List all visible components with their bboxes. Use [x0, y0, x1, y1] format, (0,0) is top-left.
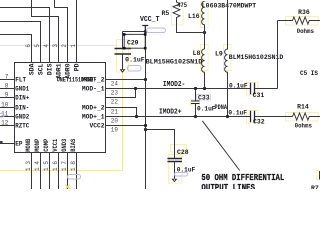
- wire pin18 BIAS: [76, 153, 78, 190]
- svg-text:9: 9: [5, 91, 9, 98]
- wire VCC_T to C29: [123, 31, 146, 33]
- highlight box C33: [191, 100, 200, 106]
- wire pin21 MOD+_2 down to bus: [106, 108, 137, 117]
- svg-text:IMOD2+: IMOD2+: [159, 108, 182, 116]
- svg-text:0.1uF: 0.1uF: [125, 57, 145, 64]
- svg-text:3: 3: [52, 44, 59, 48]
- svg-text:MOD+_2: MOD+_2: [82, 104, 105, 111]
- svg-text:0.1uF: 0.1uF: [228, 110, 247, 117]
- node pin22 junction: [134, 87, 137, 90]
- svg-text:C31: C31: [253, 92, 265, 99]
- wire pin12 RZTC: [0, 125, 15, 127]
- wire diagonal stub: [202, 121, 239, 171]
- svg-text:GND2: GND2: [15, 114, 29, 121]
- svg-text:R36: R36: [298, 9, 310, 16]
- svg-text:DIN+: DIN+: [15, 95, 29, 102]
- svg-text:0.1uF: 0.1uF: [197, 105, 216, 112]
- svg-text:C5 IS: C5 IS: [300, 70, 318, 77]
- svg-text:PD: PD: [73, 63, 80, 71]
- svg-text:VCC_T: VCC_T: [140, 16, 160, 24]
- svg-text:R7: R7: [311, 185, 319, 189]
- wire pin7 FLT: [0, 79, 15, 81]
- capacitor C28 bottom lead: [174, 162, 176, 179]
- highlight net yellow top horizontal: [0, 45, 117, 47]
- svg-text:PDNA: PDNA: [215, 104, 228, 111]
- wire pin25 EP: [0, 143, 15, 145]
- yellow cross on pin17 wire: [65, 185, 70, 190]
- wire R36 left drop: [277, 21, 279, 89]
- wire pin24 MOD-_2 to VCC_T node: [106, 79, 146, 81]
- capacitor C28 plates: [168, 159, 183, 162]
- svg-text:MOD-_1: MOD-_1: [82, 85, 105, 92]
- capacitor C29 leads: [122, 32, 124, 70]
- highlight net yellow vertical: [122, 40, 124, 171]
- ground arrow below C28: [172, 179, 178, 183]
- wire pin3 feed from top: [32, 0, 59, 63]
- svg-text:20: 20: [111, 117, 119, 124]
- svg-text:OUTPUT LINES: OUTPUT LINES: [201, 182, 255, 189]
- svg-text:L16: L16: [188, 13, 200, 20]
- wire pin15 COMP: [49, 153, 51, 190]
- node C33 bottom junction: [194, 115, 197, 118]
- svg-text:1: 1: [70, 44, 77, 48]
- resistor R36: [278, 17, 320, 24]
- svg-text:12: 12: [1, 119, 9, 126]
- inductor L9: [225, 0, 228, 117]
- highlight box L8: [201, 45, 209, 71]
- wire pin6 feed from left: [0, 35, 32, 63]
- wire pin16 VCC1: [58, 153, 60, 190]
- highlight box L9: [224, 45, 232, 71]
- svg-text:ADR1: ADR1: [55, 63, 62, 79]
- wire pin4 feed from left: [0, 8, 50, 63]
- svg-text:8: 8: [5, 82, 9, 89]
- svg-text:L9: L9: [215, 51, 223, 58]
- lavender box right of C28 ground: [175, 173, 188, 177]
- wire pin5 feed from left: [0, 22, 41, 63]
- svg-text:C29: C29: [127, 39, 139, 46]
- svg-text:IMOD2-: IMOD2-: [163, 81, 185, 89]
- node pin19 junction: [144, 124, 147, 127]
- wire pin13 MONB: [31, 153, 33, 190]
- svg-text:5: 5: [34, 44, 41, 48]
- svg-text:MOD-_2: MOD-_2: [82, 76, 105, 83]
- wire C28 branch: [146, 130, 175, 159]
- wire pin14 MONP: [40, 153, 42, 190]
- highlight box R5: [172, 6, 184, 26]
- svg-text:2: 2: [61, 44, 68, 48]
- highlight box R14: [286, 113, 319, 122]
- lavender box near VCC_T: [147, 28, 166, 33]
- resistor R14: [293, 113, 320, 120]
- highlight box C28 label: [171, 145, 187, 153]
- svg-text:EP: EP: [15, 141, 23, 148]
- svg-text:21: 21: [111, 108, 119, 115]
- resistor R7 lead partial: [319, 171, 320, 180]
- wire pin8 GND1: [0, 88, 15, 90]
- svg-text:C28: C28: [177, 149, 189, 156]
- wire pin17 GND3: [67, 153, 69, 190]
- capacitor C29 plates: [115, 49, 132, 55]
- wire pin11 GND2: [0, 116, 15, 118]
- capacitor C33 plates: [191, 101, 200, 104]
- svg-text:23: 23: [111, 89, 119, 96]
- node pin21 junction: [135, 115, 138, 118]
- C29 label box selected: [123, 33, 147, 49]
- svg-text:FLT: FLT: [15, 77, 26, 84]
- svg-text:4: 4: [43, 44, 50, 48]
- capacitor C31 plates: [251, 83, 255, 94]
- lavender box below pin18: [68, 175, 81, 180]
- highlight box R36: [286, 17, 319, 26]
- svg-text:MONB: MONB: [25, 138, 32, 151]
- wire pin20 IMOD2+ bus: [106, 116, 251, 118]
- svg-text:DIN-: DIN-: [15, 105, 29, 112]
- highlight box C29: [117, 40, 129, 73]
- svg-text:L8: L8: [193, 50, 201, 57]
- lavender box near C29 arrow: [128, 66, 142, 72]
- inductor L16: [202, 2, 205, 50]
- svg-text:COMP: COMP: [43, 138, 50, 151]
- svg-text:R5: R5: [162, 10, 170, 17]
- wire VCC_T vertical main: [145, 32, 147, 190]
- wire pin22 MOD-_1 up to bus: [106, 89, 136, 98]
- C33 label box: [197, 95, 211, 101]
- lavender tick left edge pin11: [0, 114, 4, 118]
- wire pin1 feed from top: [76, 0, 78, 63]
- highlight net yellow bottom horizontal: [0, 170, 123, 172]
- svg-text:BLM15HG102SN1D: BLM15HG102SN1D: [229, 54, 284, 61]
- wire pin10 DIN-: [0, 107, 15, 109]
- node C28 branch junction: [144, 128, 147, 131]
- wire pin2 feed from top: [55, 0, 68, 63]
- svg-text:R14: R14: [297, 104, 309, 111]
- power symbol VCC_T: [142, 26, 148, 32]
- svg-text:C33: C33: [198, 94, 210, 101]
- svg-text:C32: C32: [253, 118, 265, 125]
- svg-text:VCC2: VCC2: [90, 122, 105, 129]
- wire C31 to R36 drop: [255, 88, 278, 90]
- capacitor C32 plates: [251, 111, 255, 122]
- svg-text:0ohms: 0ohms: [297, 28, 315, 35]
- svg-text:MONP: MONP: [34, 138, 41, 151]
- svg-text:MOD+_1: MOD+_1: [82, 113, 105, 120]
- svg-text:DIS: DIS: [46, 63, 53, 75]
- highlight box C32: [247, 111, 259, 124]
- node L9 junction: [226, 115, 229, 118]
- svg-text:10: 10: [1, 101, 9, 108]
- svg-text:L0603B470MDWPT: L0603B470MDWPT: [202, 2, 257, 9]
- ground arrow below C29: [120, 69, 126, 73]
- op-amp U1 ONET1151DRGET body: [15, 63, 106, 153]
- svg-text:24: 24: [111, 80, 119, 87]
- svg-text:475: 475: [177, 2, 187, 9]
- wire C32 to R14: [255, 116, 293, 118]
- svg-text:ADR0: ADR0: [64, 63, 71, 79]
- svg-text:GND1: GND1: [15, 86, 29, 93]
- svg-text:BIAS: BIAS: [70, 138, 77, 151]
- svg-text:VCC1: VCC1: [52, 138, 59, 151]
- svg-text:RZTC: RZTC: [15, 123, 29, 130]
- node L8 junction: [203, 87, 206, 90]
- node pin24 junction: [144, 78, 147, 81]
- svg-text:0ohms: 0ohms: [295, 123, 313, 130]
- node VCC_T junction: [144, 30, 147, 33]
- wire pin19 VCC2: [106, 125, 146, 127]
- resistor R5: [173, 0, 204, 33]
- svg-text:6: 6: [25, 44, 32, 48]
- node C33 top junction: [194, 87, 197, 90]
- svg-text:22: 22: [111, 98, 119, 105]
- wire pin9 DIN+: [0, 97, 15, 99]
- highlight box right edge component: [317, 171, 320, 180]
- svg-text:BLM15HG102SN1D: BLM15HG102SN1D: [146, 59, 203, 66]
- svg-text:GND3: GND3: [61, 138, 68, 151]
- svg-text:7: 7: [5, 73, 9, 80]
- node R5/L16 junction: [203, 31, 206, 34]
- highlight box C31: [247, 83, 259, 96]
- svg-text:0.1uF: 0.1uF: [229, 82, 248, 89]
- capacitor C33 leads: [195, 89, 197, 117]
- svg-text:19: 19: [111, 126, 119, 133]
- highlight box C28 body: [169, 155, 183, 184]
- svg-text:SCL: SCL: [37, 63, 44, 75]
- inductor L8: [202, 49, 205, 89]
- highlight box L16: [201, 2, 209, 28]
- wire pin23 IMOD2- bus: [106, 88, 251, 90]
- svg-text:SDA: SDA: [28, 63, 35, 75]
- pin number 25 tick: [0, 141, 3, 143]
